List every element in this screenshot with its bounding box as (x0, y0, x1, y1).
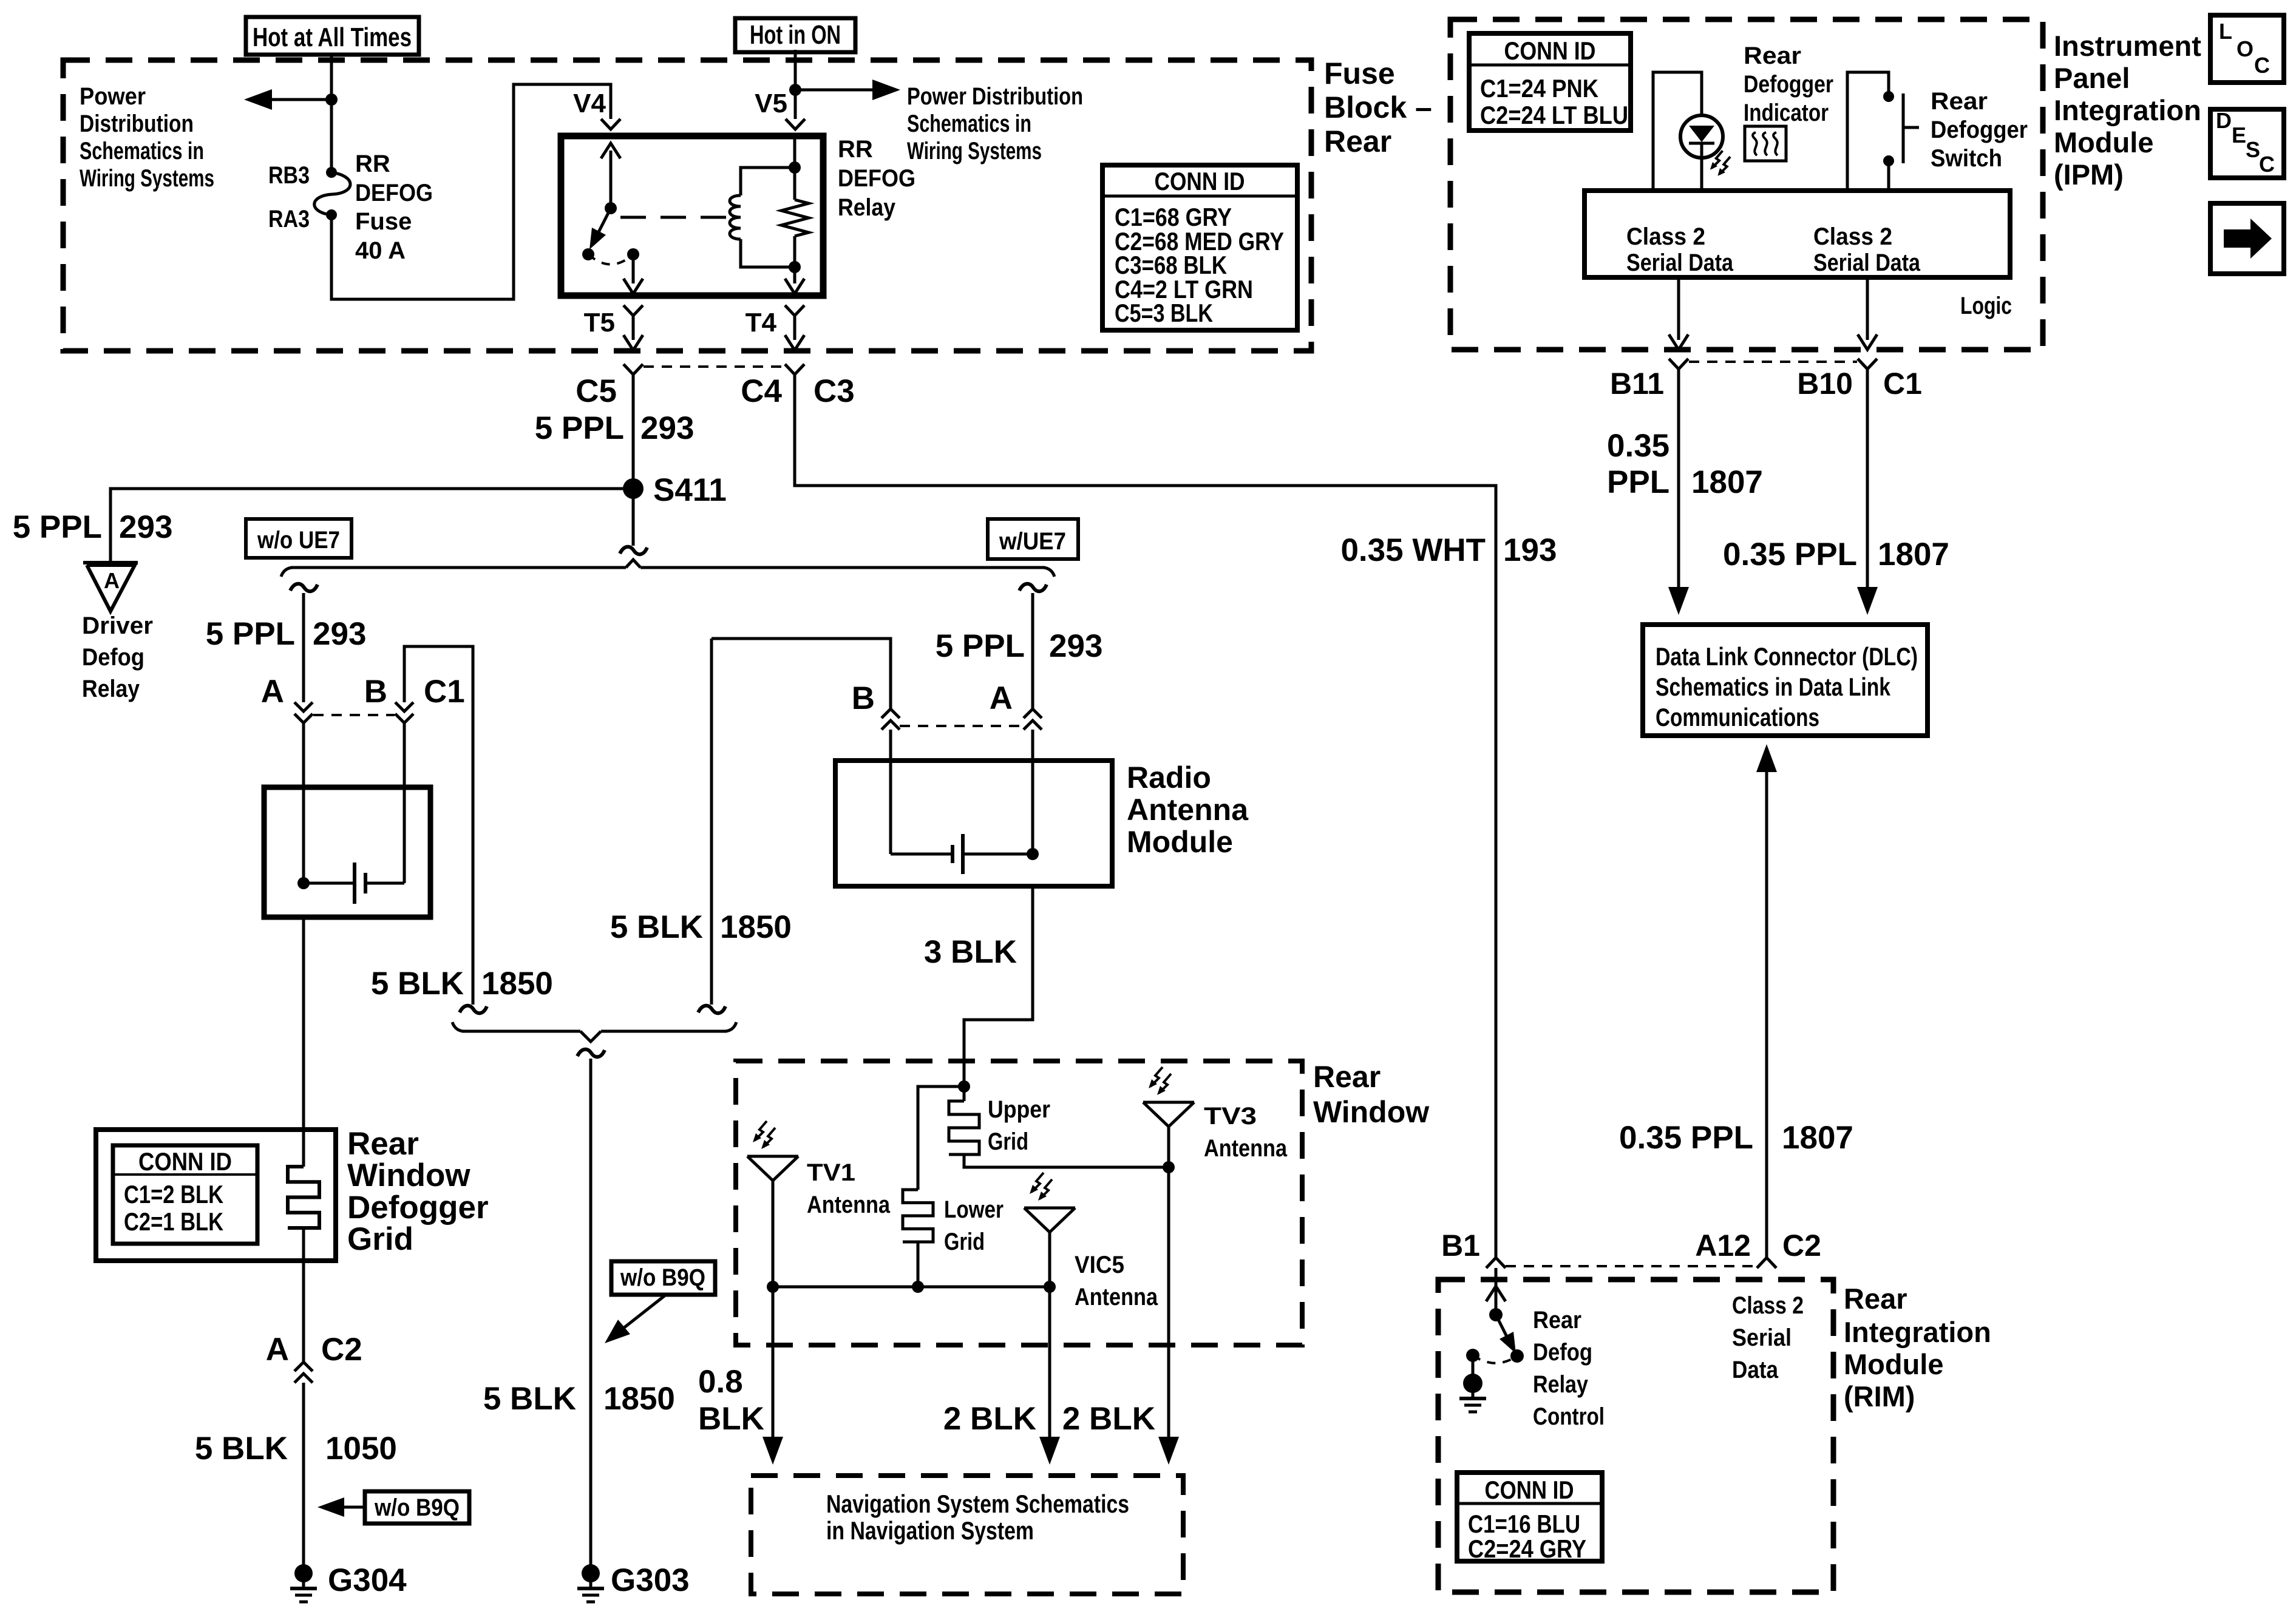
relay coil suppression resistor (781, 168, 809, 267)
svg-text:Rear: Rear (1324, 124, 1391, 158)
label Rear Window Defogger Grid (347, 1126, 489, 1257)
svg-text:S: S (2246, 137, 2260, 162)
navigation system dashed box (751, 1476, 1183, 1594)
ground G303 (582, 1564, 600, 1582)
connector T5 with arrow to fuse block edge (623, 305, 643, 350)
svg-text:Radio: Radio (1127, 761, 1211, 795)
svg-text:B11: B11 (1610, 367, 1664, 401)
svg-text:2 BLK: 2 BLK (1062, 1401, 1155, 1437)
off-page triangle A driver defog relay (83, 563, 138, 611)
svg-text:Driver: Driver (82, 612, 153, 639)
connector pin A (radio antenna module) (1024, 709, 1042, 718)
connector mate dashed A-B (313, 714, 395, 716)
label Rear Defog Relay Control (1533, 1307, 1605, 1430)
svg-text:CONN ID: CONN ID (1155, 167, 1245, 195)
wire grid to connector C2 (302, 1228, 305, 1362)
svg-text:Rear: Rear (347, 1126, 419, 1162)
wire B11 to DLC (1668, 369, 1689, 615)
svg-text:Grid: Grid (944, 1229, 985, 1255)
svg-text:T5: T5 (584, 308, 615, 337)
svg-text:B1: B1 (1441, 1229, 1480, 1263)
svg-text:RA3: RA3 (268, 206, 310, 232)
svg-text:VIC5: VIC5 (1075, 1252, 1124, 1278)
svg-text:E: E (2232, 123, 2246, 147)
svg-text:Module: Module (1844, 1348, 1943, 1380)
svg-text:CONN ID: CONN ID (1504, 36, 1596, 65)
svg-text:L: L (2219, 19, 2232, 44)
connector V5 (786, 119, 805, 129)
rear window defogger grid resistor element (288, 1167, 319, 1228)
svg-text:CONN ID: CONN ID (138, 1147, 232, 1176)
fuse block dashed enclosure (Fuse Block - Rear) (63, 60, 1311, 351)
note Power Distribution Schematics in Wiring Systems (right) (907, 83, 1083, 164)
label Rear Defogger Indicator (1744, 42, 1833, 126)
svg-text:1807: 1807 (1878, 537, 1949, 572)
svg-text:CONN ID: CONN ID (1485, 1476, 1574, 1504)
fuse block CONN ID table (1102, 165, 1297, 330)
wire pin B to ground rail (712, 639, 891, 709)
svg-text:Communications: Communications (1656, 703, 1819, 731)
relay switch pivot (605, 202, 617, 214)
svg-text:5 PPL: 5 PPL (206, 616, 295, 652)
rear window dashed enclosure (736, 1061, 1302, 1345)
wire switch to logic (1887, 161, 1890, 191)
converging splice bracket to G303 (452, 1022, 736, 1042)
svg-text:3 BLK: 3 BLK (924, 934, 1017, 970)
fuse RR DEFOG Fuse 40 A (314, 167, 350, 220)
svg-text:w/o B9Q: w/o B9Q (374, 1494, 460, 1521)
wire arrow to power distribution (left) (244, 89, 331, 110)
node bus lower grid (912, 1281, 924, 1293)
wire S411 to driver defog relay reference (110, 489, 633, 563)
wire element to rear window defogger grid (302, 917, 305, 1167)
node TV3 junction (1163, 1161, 1175, 1173)
wire C5 to S411 (632, 375, 635, 546)
svg-text:193: 193 (1503, 532, 1557, 568)
svg-text:Integration: Integration (1844, 1316, 1991, 1348)
label 0.35 PPL 1807 (B10) (1723, 537, 1949, 572)
rear integration module dashed enclosure (1438, 1280, 1833, 1592)
svg-text:BLK: BLK (698, 1401, 764, 1437)
svg-text:Relay: Relay (838, 194, 896, 221)
wire radio module to rear window (3 BLK) (964, 886, 1033, 1086)
wire left drop from bracket with squiggle (290, 584, 318, 702)
radiation marks TV3 (1150, 1067, 1163, 1086)
svg-text:Fuse: Fuse (355, 208, 412, 235)
svg-text:Rear: Rear (1844, 1283, 1907, 1315)
svg-text:B: B (364, 674, 387, 710)
svg-text:C2=24 GRY: C2=24 GRY (1468, 1534, 1586, 1563)
svg-text:TV1: TV1 (807, 1159, 855, 1186)
svg-text:C5=3 BLK: C5=3 BLK (1115, 299, 1213, 327)
svg-text:(RIM): (RIM) (1844, 1380, 1915, 1412)
connector pin A / C2 (grid ground lead) (294, 1362, 313, 1371)
relay switch arm (589, 208, 611, 249)
svg-text:Serial Data: Serial Data (1813, 249, 1921, 276)
svg-text:1850: 1850 (720, 909, 792, 945)
svg-text:A: A (104, 568, 120, 593)
label 0.35 PPL 1807 (A12 to DLC) (1619, 1120, 1853, 1156)
svg-text:C4: C4 (741, 373, 782, 409)
grid CONN ID table (113, 1145, 257, 1244)
svg-text:Grid: Grid (347, 1221, 413, 1257)
svg-text:Data Link Connector (DLC): Data Link Connector (DLC) (1656, 642, 1918, 671)
svg-text:C: C (2254, 53, 2270, 78)
label 5 BLK 1050 (195, 1431, 397, 1466)
svg-text:C1=16 BLU: C1=16 BLU (1468, 1510, 1580, 1538)
RIM driver contact (1510, 1349, 1524, 1363)
svg-text:0.35 PPL: 0.35 PPL (1723, 537, 1857, 572)
svg-text:A: A (266, 1332, 289, 1368)
radio module element symbol (891, 834, 1033, 874)
LED radiation marks (1712, 151, 1723, 168)
wire TV3 to navigation system (1158, 1167, 1179, 1465)
svg-text:Fuse: Fuse (1324, 56, 1395, 90)
svg-text:TV3: TV3 (1204, 1103, 1257, 1130)
svg-text:D: D (2216, 108, 2232, 133)
relay coil output wire with down arrow (785, 267, 804, 294)
svg-text:Defogger: Defogger (1931, 117, 2028, 143)
svg-text:T4: T4 (746, 308, 777, 337)
radiation marks VIC5 (1031, 1173, 1044, 1192)
svg-text:Power: Power (80, 83, 146, 110)
label TV1 Antenna (807, 1159, 891, 1218)
svg-text:B10: B10 (1797, 367, 1853, 401)
label Class 2 Serial Data (left) (1626, 223, 1734, 276)
wire pin A into element box (302, 723, 305, 883)
flag box Hot at All Times (246, 17, 419, 55)
relay coil (730, 168, 795, 267)
wire RIM A12 to DLC with up arrow (1756, 744, 1777, 1258)
svg-text:Upper: Upper (988, 1096, 1050, 1123)
svg-text:Antenna: Antenna (1204, 1135, 1288, 1162)
svg-text:C2=1 BLK: C2=1 BLK (124, 1207, 223, 1236)
svg-text:Serial Data: Serial Data (1626, 249, 1734, 276)
svg-text:C5: C5 (576, 373, 617, 409)
label TV3 Antenna (1204, 1103, 1288, 1162)
svg-text:w/o B9Q: w/o B9Q (620, 1264, 705, 1291)
label RR DEFOG Relay (838, 136, 915, 221)
connector T4 with arrow to fuse block edge (785, 305, 804, 350)
icon box LOC (2210, 15, 2284, 83)
RIM driver throw dashed arc (1473, 1355, 1517, 1363)
svg-text:in Navigation System: in Navigation System (826, 1516, 1034, 1545)
svg-text:Schematics in: Schematics in (907, 110, 1031, 137)
label 5 BLK 1850 (radio ground) (610, 909, 792, 945)
label 5 PPL 293 (driver defog branch) (13, 509, 173, 545)
wire pin B into element box (403, 723, 406, 883)
svg-text:C2: C2 (321, 1332, 362, 1368)
note Navigation System Schematics in Navigation System (826, 1490, 1129, 1545)
svg-text:Defog: Defog (1533, 1339, 1592, 1366)
svg-text:Relay: Relay (1533, 1371, 1589, 1398)
node 3 BLK junction in rear window (958, 1080, 970, 1093)
wire S411 stub with break squiggle (620, 547, 647, 554)
label 5 BLK 1850 (G303 wire) (483, 1381, 675, 1417)
svg-text:(IPM): (IPM) (2054, 158, 2124, 191)
label Fuse Block - Rear (1324, 56, 1432, 158)
node junction on feed wire (325, 93, 338, 106)
svg-text:DEFOG: DEFOG (838, 165, 915, 192)
label 5 PPL 293 (w/o UE7 branch) (206, 616, 367, 652)
connector pin B (radio antenna module) (881, 709, 900, 718)
svg-text:Serial: Serial (1732, 1324, 1792, 1351)
wire B10 to DLC (1857, 369, 1878, 615)
svg-text:Control: Control (1533, 1403, 1605, 1430)
relay switch contact closed (627, 248, 639, 260)
svg-text:V4: V4 (573, 89, 606, 118)
svg-text:0.8: 0.8 (698, 1364, 743, 1400)
heater indicator icon (1745, 126, 1786, 161)
wire fuse RA3 to relay V4 (331, 84, 611, 299)
svg-text:0.35: 0.35 (1607, 428, 1669, 464)
radio antenna module box (835, 761, 1112, 886)
antenna TV1 (747, 1156, 798, 1287)
flag box w/UE7 (988, 519, 1078, 559)
ground G304 (294, 1564, 313, 1582)
label Class 2 Serial Data (RIM) (1732, 1292, 1804, 1383)
node radio element junction (1027, 848, 1039, 860)
svg-text:V5: V5 (755, 89, 787, 118)
label Upper Grid (988, 1096, 1050, 1155)
svg-text:1050: 1050 (325, 1431, 397, 1466)
connector mate dashed line C5-C4 (644, 365, 784, 368)
svg-text:RR: RR (355, 151, 390, 177)
label Class 2 Serial Data (right) (1813, 223, 1921, 276)
svg-text:C2=24 LT BLU: C2=24 LT BLU (1480, 101, 1628, 129)
antenna ground bus (773, 1286, 1050, 1289)
data link connector reference box (1643, 625, 1927, 736)
wire pin B into radio module (889, 730, 892, 854)
svg-text:5 PPL: 5 PPL (13, 509, 102, 545)
svg-text:A12: A12 (1695, 1229, 1751, 1263)
RIM driver arm with arrow (1496, 1315, 1516, 1354)
svg-text:Navigation System Schematics: Navigation System Schematics (826, 1490, 1129, 1518)
lower grid element (903, 1190, 933, 1287)
node junction on V5 wire (789, 84, 801, 96)
wire grid pin B rail squiggle end (460, 1006, 487, 1013)
splice S411 (623, 478, 644, 499)
svg-text:C3: C3 (813, 373, 855, 409)
connector mate dashed B1-A12 (1506, 1265, 1754, 1267)
svg-text:Wiring Systems: Wiring Systems (907, 138, 1042, 164)
flag box w/o B9Q (G304) with arrow (318, 1491, 469, 1524)
wire to lower grid (918, 1086, 964, 1190)
relay V5 input wire (793, 136, 796, 168)
wire B1 into RIM with up arrow (1486, 1268, 1506, 1315)
label 0.35 WHT 193 (1340, 532, 1557, 568)
upper grid element (949, 1086, 1169, 1167)
svg-text:293: 293 (119, 509, 172, 545)
label Rear Window (1313, 1060, 1429, 1129)
radiation marks TV1 (755, 1121, 767, 1141)
wire radio module ground drop (710, 639, 713, 1005)
svg-text:Class 2: Class 2 (1813, 223, 1892, 250)
relay switch contact open (582, 248, 594, 260)
svg-text:Distribution: Distribution (80, 110, 194, 137)
label 0.35 PPL 1807 (B11) (1607, 428, 1763, 500)
icon box forward arrow (2210, 203, 2284, 274)
wire VIC5 to navigation system (1039, 1287, 1060, 1465)
wire C3 to RIM B1 (0.35 WHT 193) (795, 375, 1496, 1258)
rear defogger switch (1883, 91, 1919, 166)
svg-text:Grid: Grid (988, 1128, 1028, 1155)
connector mate dashed B-A (radio) (900, 725, 1021, 727)
svg-text:Antenna: Antenna (1075, 1284, 1158, 1310)
connector mate dashed B11-B10 (1689, 361, 1857, 363)
label Rear Defogger Switch (1931, 88, 2028, 172)
RIM internal ground (1459, 1355, 1486, 1412)
svg-text:G304: G304 (328, 1562, 407, 1598)
wire from Hot at All Times down to fuse RB3 (330, 53, 333, 172)
svg-text:C1=2 BLK: C1=2 BLK (124, 1180, 223, 1209)
svg-text:PPL: PPL (1607, 464, 1669, 500)
svg-text:1807: 1807 (1782, 1120, 1853, 1156)
label 0.8 BLK (698, 1364, 764, 1437)
label VIC5 Antenna (1075, 1252, 1158, 1310)
svg-text:Antenna: Antenna (807, 1192, 891, 1218)
svg-text:C1: C1 (1883, 367, 1922, 401)
label 5 BLK 1850 (grid pin B rail) (371, 966, 553, 1002)
wire logic to indicator LED (1653, 72, 1702, 191)
wire radio ground squiggle end (698, 1006, 725, 1013)
connector B11 (1669, 359, 1688, 369)
wire to G304 (302, 1383, 305, 1573)
svg-text:w/o UE7: w/o UE7 (257, 527, 340, 554)
svg-text:5 BLK: 5 BLK (195, 1431, 288, 1466)
svg-text:Integration: Integration (2054, 94, 2201, 126)
wire TV1 to navigation system (763, 1287, 783, 1465)
wire arrow to power distribution (right) (795, 80, 900, 100)
svg-text:Rear: Rear (1744, 42, 1801, 69)
label 5 PPL 293 (main feed) (535, 410, 695, 446)
svg-text:Defog: Defog (82, 644, 144, 671)
connector V4 (601, 119, 620, 129)
svg-text:S411: S411 (653, 472, 727, 508)
defogger element box (w/o UE7) (264, 787, 430, 917)
IPM logic box (1584, 191, 2010, 277)
connector B10/C1 (1858, 359, 1877, 369)
svg-text:RR: RR (838, 136, 873, 163)
svg-text:Relay: Relay (82, 676, 140, 702)
node bus VIC5 (1044, 1281, 1056, 1293)
svg-text:B: B (852, 680, 875, 716)
svg-text:Schematics in: Schematics in (80, 138, 204, 164)
svg-text:Rear: Rear (1313, 1060, 1381, 1094)
svg-text:C1: C1 (424, 674, 465, 710)
svg-text:5 BLK: 5 BLK (610, 909, 703, 945)
svg-text:A: A (261, 674, 284, 710)
svg-text:Indicator: Indicator (1744, 100, 1829, 126)
relay switch output wire with down arrow (623, 254, 643, 294)
svg-text:Instrument: Instrument (2054, 30, 2201, 62)
svg-text:293: 293 (1049, 628, 1102, 664)
svg-text:RB3: RB3 (268, 162, 310, 189)
wire bracket to G303 with squiggle (577, 1049, 605, 1573)
svg-text:0.35 PPL: 0.35 PPL (1619, 1120, 1753, 1156)
note Driver Defog Relay (82, 612, 153, 702)
svg-text:Hot at All Times: Hot at All Times (253, 22, 412, 52)
wire pin B loop to ground rail (404, 646, 473, 1005)
flag box Hot in ON (735, 18, 855, 52)
wire logic output B11 with arrow (1669, 277, 1688, 350)
rear window defogger grid box (96, 1130, 336, 1261)
node bus TV1 (767, 1281, 779, 1293)
connector C4/C3 (785, 364, 804, 375)
antenna VIC5 (1024, 1208, 1075, 1287)
label 5 PPL 293 (w/UE7 branch) (936, 628, 1103, 664)
svg-text:2 BLK: 2 BLK (943, 1401, 1036, 1437)
svg-text:O: O (2237, 36, 2254, 61)
svg-text:Panel: Panel (2054, 62, 2130, 94)
svg-text:Defogger: Defogger (347, 1190, 489, 1225)
connector A12/C2 (1757, 1258, 1776, 1268)
LED rear defogger indicator (1680, 115, 1723, 158)
svg-text:5 PPL: 5 PPL (535, 410, 624, 446)
svg-text:5 BLK: 5 BLK (483, 1381, 576, 1417)
svg-text:293: 293 (313, 616, 366, 652)
svg-text:Wiring Systems: Wiring Systems (80, 165, 214, 192)
svg-text:Module: Module (1127, 825, 1233, 859)
wire right drop from bracket with squiggle (1019, 584, 1047, 709)
svg-text:Logic: Logic (1960, 293, 2012, 319)
svg-text:Rear: Rear (1931, 88, 1988, 115)
svg-text:0.35 WHT: 0.35 WHT (1340, 532, 1486, 568)
svg-text:DEFOG: DEFOG (355, 180, 433, 206)
RIM CONN ID table (1457, 1473, 1602, 1563)
svg-text:C1=24 PNK: C1=24 PNK (1480, 74, 1598, 103)
wire LED to logic (1700, 158, 1703, 191)
note Power Distribution Schematics in Wiring Systems (left) (80, 83, 214, 192)
relay RR DEFOG Relay box (561, 136, 823, 296)
label RR DEFOG Fuse 40 A (355, 151, 433, 264)
label Instrument Panel Integration Module (IPM) (2054, 30, 2201, 191)
svg-text:Window: Window (347, 1158, 470, 1193)
svg-text:C2: C2 (1782, 1229, 1821, 1263)
svg-text:w/UE7: w/UE7 (999, 528, 1066, 555)
label Radio Antenna Module (1127, 761, 1249, 859)
wire Hot in ON down to relay V5 (794, 50, 797, 119)
svg-text:1850: 1850 (603, 1381, 675, 1417)
svg-text:Hot in ON: Hot in ON (750, 20, 841, 50)
svg-text:Rear: Rear (1533, 1307, 1581, 1334)
svg-text:40 A: 40 A (355, 237, 406, 264)
svg-text:5 BLK: 5 BLK (371, 966, 464, 1002)
svg-text:Power Distribution: Power Distribution (907, 83, 1083, 110)
label Lower Grid (944, 1196, 1004, 1255)
svg-text:Class 2: Class 2 (1732, 1292, 1804, 1319)
wire logic to defogger switch (1847, 72, 1889, 191)
connector pin A (grid C1) (294, 702, 313, 711)
node coil bottom junction (789, 261, 801, 273)
RIM driver contact (ground side) (1466, 1349, 1479, 1362)
connector B1 (1486, 1258, 1506, 1268)
connector C5 (623, 364, 643, 375)
wire pin A into radio module (1031, 730, 1034, 854)
icon box DESC (2210, 108, 2284, 178)
svg-text:Lower: Lower (944, 1196, 1004, 1223)
svg-text:Module: Module (2054, 126, 2153, 158)
svg-text:Window: Window (1313, 1095, 1429, 1129)
flag box w/o B9Q (G303) with diagonal arrow (605, 1261, 715, 1343)
svg-text:G303: G303 (611, 1562, 690, 1598)
relay switch common wire with up arrow (601, 143, 620, 208)
svg-text:Data: Data (1732, 1357, 1779, 1383)
splice spread bracket (281, 560, 1055, 577)
svg-text:1807: 1807 (1691, 464, 1763, 500)
antenna TV3 (1143, 1102, 1194, 1169)
node element input junction (297, 877, 310, 889)
